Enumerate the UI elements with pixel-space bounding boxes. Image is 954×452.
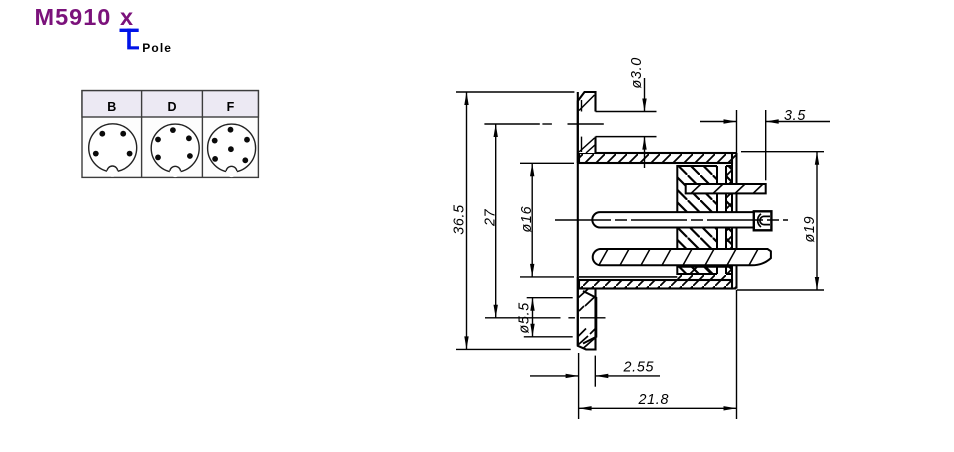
svg-text:ø19: ø19 <box>802 216 818 243</box>
terminal bottom <box>593 249 771 265</box>
dimension ø3.0 <box>644 78 646 168</box>
svg-text:ø3.0: ø3.0 <box>629 57 645 88</box>
centerline hole top <box>484 123 603 125</box>
svg-text:36.5: 36.5 <box>452 204 468 235</box>
svg-text:21.8: 21.8 <box>638 392 670 408</box>
svg-text:B: B <box>107 100 116 114</box>
svg-text:3.5: 3.5 <box>784 108 806 124</box>
pole symbol (blue bracket) <box>120 29 140 50</box>
dimension ø16 <box>520 163 574 277</box>
cavity inner edge lines (ø16 bore) <box>579 276 677 278</box>
center contact <box>592 211 771 230</box>
dimension 36.5 <box>456 92 574 349</box>
shell top wall <box>579 153 732 163</box>
svg-text:27: 27 <box>483 208 499 227</box>
svg-text:ø16: ø16 <box>519 206 535 233</box>
dimension ø19 <box>737 152 824 290</box>
flange left edge (full height) <box>577 92 579 346</box>
connector face B <box>89 124 137 177</box>
dimension 3.5 <box>700 110 830 180</box>
terminal top <box>686 184 766 193</box>
svg-text:2.55: 2.55 <box>623 359 655 375</box>
shell bottom wall <box>579 267 732 289</box>
centerline axis <box>555 219 788 221</box>
centerline hole bottom <box>485 317 606 319</box>
svg-text:Pole: Pole <box>142 41 172 55</box>
svg-text:x: x <box>120 4 133 30</box>
dimension 2.55 <box>530 353 660 419</box>
dimension 27 <box>495 124 497 318</box>
shell rear rim <box>732 153 737 289</box>
svg-text:ø5.5: ø5.5 <box>517 302 533 333</box>
svg-text:D: D <box>167 100 176 114</box>
insulator block <box>677 164 732 276</box>
dimension 21.8 <box>579 290 737 419</box>
flange top section <box>578 92 596 163</box>
pinout table frame <box>82 91 258 178</box>
connector face F <box>208 124 256 177</box>
connector face D <box>151 124 199 177</box>
svg-text:F: F <box>227 100 235 114</box>
svg-text:M5910: M5910 <box>35 4 112 30</box>
dimension ø5.5 <box>524 298 573 337</box>
flange bottom section <box>578 277 596 350</box>
boss ø5.5 <box>583 291 596 344</box>
mounting hole top ø3.0 <box>596 112 657 137</box>
